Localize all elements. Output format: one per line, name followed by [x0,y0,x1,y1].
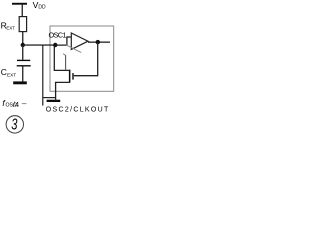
wire resistor to node A [22,32,23,45]
diagonal wire from OSC1 input toward transistor [66,45,81,53]
wire node A to OSC1 (horizontal) [23,44,56,45]
resistor R_EXT [19,17,26,32]
ground bar VSS [13,81,27,84]
node B junction dot (OSC1 pin) [53,43,57,47]
wire hook at top of stub [63,54,65,56]
transistor Q1 channel bar [69,70,71,83]
wire output dot down to transistor gate [74,42,98,76]
chip box U1 [50,26,114,91]
capacitor C_EXT bottom plate [17,65,31,66]
wire VDD bar to resistor [22,4,23,16]
wire OSC1 jog up to inverter input [55,37,71,45]
wire node A down to capacitor [22,45,23,60]
capacitor C_EXT top plate [17,60,30,61]
wire node B down to transistor drain [54,47,69,71]
svg-text:/4: /4 [13,100,19,109]
VDD power bar [12,3,27,5]
OSC2 pin bar [47,100,61,102]
node C output junction dot [96,40,100,44]
wire fosc/4 net to OSC2 pin [43,97,56,98]
wire capacitor to ground [22,66,23,81]
node A junction dot [21,43,25,47]
svg-text:OSC1: OSC1 [49,30,67,39]
wire transistor source to OSC2 pin [56,82,70,99]
svg-text:CEXT: CEXT [1,67,16,77]
svg-text:3: 3 [11,117,17,134]
transistor Q1 gate bar [72,73,73,80]
pin number 3 circle [6,116,23,133]
svg-text:REXT: REXT [1,20,16,30]
wire inverter output to internal clock [88,42,110,43]
wire stub into transistor drain (second vertical) [65,55,67,70]
svg-text:VDD: VDD [33,0,46,11]
svg-text:OSC2/CLKOUT: OSC2/CLKOUT [46,106,109,113]
wire stub after fosc/4 label [22,103,27,104]
op-amp U1 inverter triangle [71,33,88,49]
wire OSC1 net down (left vertical) [42,45,43,106]
